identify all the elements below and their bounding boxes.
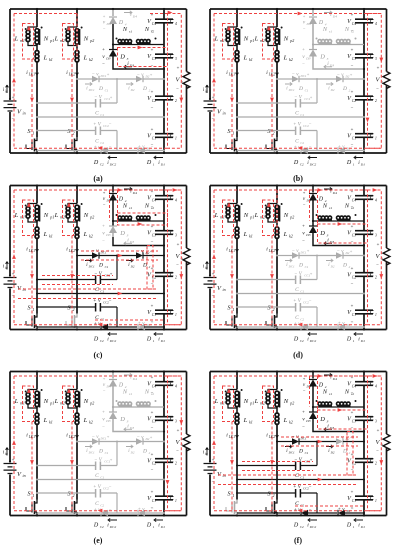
svg-text:D4: D4 [332,377,337,381]
svg-text:D: D [298,86,303,92]
svg-text:p2: p2 [89,401,94,406]
svg-text:4: 4 [175,198,177,202]
svg-text:L: L [83,417,88,424]
svg-text:D: D [98,449,103,455]
svg-text:k2: k2 [289,57,293,62]
svg-text:LK2: LK2 [68,249,75,253]
svg-text:2: 2 [73,307,75,312]
svg-text:C: C [95,111,99,117]
svg-text:−: − [302,425,305,430]
svg-text:C2: C2 [100,163,104,167]
svg-text:C: C [295,139,299,145]
svg-text:C4: C4 [152,384,156,388]
svg-text:3: 3 [175,57,177,61]
svg-text:s2: s2 [351,392,354,396]
svg-text:N: N [83,36,89,43]
svg-text:C2: C2 [300,318,304,322]
svg-text:+: + [351,305,354,310]
svg-text:C: C [95,139,99,145]
svg-text:−: − [309,507,312,512]
svg-text:C1: C1 [105,451,109,455]
svg-text:C1: C1 [352,136,356,140]
svg-text:C2: C2 [100,525,104,529]
svg-text:−: − [376,87,379,92]
svg-text:D: D [146,523,152,529]
svg-text:L: L [83,55,88,62]
svg-text:− v: − v [292,249,300,254]
svg-text:k1: k1 [49,420,53,425]
svg-text:in: in [205,266,208,270]
svg-text:(b): (b) [293,174,303,183]
svg-text:N: N [283,212,289,219]
svg-text:D2: D2 [330,88,335,92]
svg-text:D: D [93,523,99,529]
svg-text:C3: C3 [152,57,156,61]
svg-text:+: + [377,67,380,72]
svg-text:+: + [102,225,105,230]
svg-text:p2: p2 [289,401,294,406]
svg-text:D: D [146,160,152,166]
svg-text:−: − [351,106,354,111]
svg-text:+: + [177,67,180,72]
svg-text:+: + [110,95,113,100]
svg-text:N: N [122,26,128,33]
svg-text:+: + [150,435,153,440]
svg-text:LK1: LK1 [228,249,235,253]
svg-text:N: N [283,36,289,43]
svg-text:N: N [122,389,128,396]
svg-text:D3: D3 [105,233,111,237]
svg-text:D: D [119,416,125,423]
svg-text:C1: C1 [305,265,309,269]
svg-text:DC2: DC2 [109,339,117,343]
svg-text:p1: p1 [49,401,54,406]
svg-text:p2: p2 [289,38,294,43]
svg-text:C2: C2 [100,504,104,508]
svg-text:+ v: + v [138,508,146,513]
svg-text:k1: k1 [49,234,53,239]
svg-text:D: D [298,449,303,455]
svg-text:LK2: LK2 [68,73,75,77]
svg-text:D: D [342,449,347,455]
svg-text:C1: C1 [352,313,356,317]
svg-text:− v: − v [292,73,300,78]
svg-text:1: 1 [175,136,177,140]
svg-text:N: N [144,26,150,33]
svg-text:in: in [223,111,226,116]
svg-text:D2: D2 [130,451,135,455]
svg-text:D: D [93,160,99,166]
svg-text:D: D [293,160,299,166]
svg-text:(c): (c) [94,351,103,360]
svg-text:+: + [151,49,154,54]
svg-text:in: in [205,452,208,456]
svg-text:D: D [146,337,152,343]
svg-text:+: + [110,457,113,462]
svg-text:−: − [151,469,154,474]
svg-text:C2: C2 [152,99,156,103]
svg-text:2: 2 [375,275,377,279]
svg-text:D: D [319,54,325,61]
svg-text:C2: C2 [152,275,156,279]
svg-text:k1: k1 [49,57,53,62]
svg-text:s1: s1 [129,392,132,396]
svg-text:+: + [351,491,354,496]
svg-text:D3: D3 [305,57,311,61]
svg-text:C3: C3 [352,57,356,61]
svg-text:D4: D4 [306,385,311,389]
svg-text:2: 2 [273,131,275,136]
svg-text:+: + [377,243,380,248]
svg-text:k1: k1 [249,57,253,62]
svg-text:+ v: + v [138,145,146,150]
svg-text:4: 4 [375,198,377,202]
svg-text:L: L [254,36,259,43]
svg-text:C3: C3 [352,233,356,237]
svg-text:LK2: LK2 [268,249,275,253]
svg-text:1: 1 [375,136,377,140]
svg-text:DC2: DC2 [309,163,317,167]
svg-text:−: − [109,484,112,489]
svg-text:+ v: + v [338,322,346,327]
svg-text:L: L [254,398,259,405]
svg-text:C1: C1 [105,265,109,269]
svg-text:(d): (d) [293,351,303,360]
svg-text:+: + [151,91,154,96]
svg-text:C1: C1 [152,136,156,140]
svg-text:2: 2 [175,461,177,465]
svg-text:2: 2 [375,99,377,103]
svg-text:+: + [351,14,354,19]
svg-text:p1: p1 [49,215,54,220]
svg-text:−: − [376,450,379,455]
svg-text:C1: C1 [305,88,309,92]
svg-text:DC2: DC2 [109,525,117,529]
svg-text:2: 2 [175,275,177,279]
svg-text:−: − [309,145,312,150]
svg-text:N: N [344,26,350,33]
svg-text:+: + [351,376,354,381]
svg-text:+: + [307,72,310,77]
svg-text:D4: D4 [106,22,111,26]
svg-text:D: D [319,230,325,237]
svg-text:C3: C3 [352,419,356,423]
svg-text:+: + [151,376,154,381]
svg-text:C: C [95,501,99,507]
svg-text:N: N [43,36,49,43]
svg-text:+: + [302,411,305,416]
svg-text:+: + [102,48,105,53]
svg-text:LK2: LK2 [268,435,275,439]
svg-text:1: 1 [233,131,235,136]
svg-text:p1: p1 [249,215,254,220]
svg-text:C1: C1 [100,476,104,480]
svg-text:−: − [351,283,354,288]
svg-text:in: in [205,90,208,94]
svg-text:N: N [243,398,249,405]
svg-text:C2: C2 [352,461,356,465]
svg-text:DC2: DC2 [309,339,317,343]
svg-text:1: 1 [33,493,35,498]
svg-text:s2: s2 [351,30,354,34]
svg-text:p2: p2 [289,215,294,220]
svg-text:2: 2 [175,99,177,103]
svg-text:+: + [151,225,154,230]
svg-text:DC2: DC2 [309,525,317,529]
svg-text:+: + [103,190,106,195]
svg-text:s2: s2 [151,30,154,34]
svg-text:− V: − V [294,272,303,277]
svg-text:D: D [298,263,303,269]
svg-text:N: N [144,203,150,210]
svg-text:−: − [302,239,305,244]
svg-text:D4: D4 [306,22,311,26]
svg-text:−: − [309,122,312,127]
svg-text:N: N [344,389,350,396]
svg-text:N: N [83,398,89,405]
svg-text:− V: − V [94,272,103,277]
svg-text:L: L [43,55,48,62]
svg-text:D: D [293,523,299,529]
svg-text:+: + [151,128,154,133]
svg-text:D: D [319,416,325,423]
svg-text:DC1: DC1 [88,265,95,269]
svg-text:1: 1 [233,493,235,498]
svg-text:3: 3 [175,233,177,237]
svg-text:L: L [283,417,288,424]
svg-text:2: 2 [273,493,275,498]
svg-text:3: 3 [375,233,377,237]
svg-text:C2: C2 [152,461,156,465]
svg-text:1: 1 [153,163,155,167]
svg-text:in: in [223,287,226,292]
svg-text:in: in [5,90,8,94]
svg-text:C4: C4 [352,198,356,202]
svg-text:D: D [98,86,103,92]
svg-text:N: N [344,203,350,210]
svg-text:−: − [102,239,105,244]
svg-text:1: 1 [33,307,35,312]
svg-text:D1: D1 [160,339,165,343]
svg-text:s2: s2 [351,206,354,210]
svg-text:+: + [307,248,310,253]
svg-text:C1: C1 [305,451,309,455]
svg-text:+: + [151,453,154,458]
svg-text:+: + [303,190,306,195]
svg-text:D4: D4 [106,199,111,203]
svg-text:C4: C4 [152,198,156,202]
svg-text:+: + [177,429,180,434]
svg-text:− V: − V [294,96,303,101]
svg-text:3: 3 [175,419,177,423]
svg-text:− V: − V [94,458,103,463]
svg-text:−: − [109,507,112,512]
svg-text:D2: D2 [330,265,335,269]
svg-text:L: L [243,55,248,62]
svg-text:− V: − V [294,458,303,463]
svg-text:D1: D1 [360,525,365,529]
svg-text:− v: − v [92,73,100,78]
svg-text:−: − [176,450,179,455]
svg-text:k2: k2 [89,57,93,62]
svg-text:−: − [109,122,112,127]
svg-text:+: + [310,95,313,100]
svg-text:LK1: LK1 [28,249,35,253]
svg-text:DC2: DC2 [109,163,117,167]
svg-text:p1: p1 [249,401,254,406]
svg-text:DC1: DC1 [288,88,295,92]
svg-text:L: L [283,55,288,62]
svg-text:+: + [351,128,354,133]
svg-text:C2: C2 [100,141,104,145]
svg-text:−: − [302,63,305,68]
svg-text:LK1: LK1 [228,73,235,77]
svg-text:+: + [302,225,305,230]
svg-text:+: + [310,271,313,276]
svg-text:+: + [151,190,154,195]
svg-text:C: C [95,473,99,479]
svg-text:D: D [119,54,125,61]
svg-text:LK1: LK1 [28,73,35,77]
svg-text:in: in [23,111,26,116]
svg-text:D: D [142,449,147,455]
svg-text:3: 3 [375,57,377,61]
svg-text:D4: D4 [132,191,137,195]
svg-text:−: − [109,145,112,150]
svg-text:LK1: LK1 [228,435,235,439]
svg-text:1: 1 [353,339,355,343]
svg-text:C4: C4 [352,22,356,26]
svg-text:C: C [95,287,99,293]
svg-text:D1: D1 [160,525,165,529]
svg-text:N: N [243,212,249,219]
svg-text:−: − [303,389,306,394]
svg-text:L: L [83,231,88,238]
svg-text:−: − [103,203,106,208]
svg-text:C1: C1 [100,290,104,294]
svg-text:2: 2 [73,493,75,498]
svg-text:+ V: + V [93,485,102,490]
svg-text:N: N [144,389,150,396]
svg-text:(a): (a) [93,174,103,183]
svg-text:D2: D2 [130,88,135,92]
svg-text:D: D [346,337,352,343]
svg-text:− v: − v [337,250,345,255]
svg-text:+: + [151,411,154,416]
svg-text:L: L [54,36,59,43]
svg-text:D: D [342,86,347,92]
svg-text:+: + [102,411,105,416]
svg-text:1: 1 [233,307,235,312]
svg-text:LK2: LK2 [68,435,75,439]
svg-text:D: D [342,263,347,269]
svg-text:p2: p2 [89,215,94,220]
svg-text:L: L [254,212,259,219]
svg-text:L: L [43,231,48,238]
svg-text:− v: − v [137,73,145,78]
svg-text:+: + [151,14,154,19]
svg-text:+: + [351,267,354,272]
svg-text:C: C [295,287,299,293]
svg-text:N: N [283,398,289,405]
svg-text:1: 1 [353,525,355,529]
svg-text:1: 1 [175,313,177,317]
svg-text:C1: C1 [100,113,104,117]
svg-text:s2: s2 [151,392,154,396]
svg-text:− v: − v [337,436,345,441]
svg-text:k1: k1 [249,420,253,425]
svg-text:C1: C1 [152,499,156,503]
svg-text:−: − [103,389,106,394]
svg-text:−: − [102,425,105,430]
svg-text:LK1: LK1 [28,435,35,439]
svg-text:+: + [350,249,353,254]
svg-text:C3: C3 [152,419,156,423]
svg-text:C: C [295,111,299,117]
svg-text:+: + [103,14,106,19]
svg-text:D3: D3 [105,419,111,423]
svg-text:C2: C2 [352,275,356,279]
svg-text:D: D [142,86,147,92]
svg-text:D4: D4 [332,191,337,195]
svg-text:+: + [351,225,354,230]
svg-text:C1: C1 [152,313,156,317]
svg-text:D3: D3 [105,57,111,61]
svg-text:DC1: DC1 [288,451,295,455]
svg-text:+: + [351,49,354,54]
svg-text:+: + [177,243,180,248]
svg-text:D: D [346,523,352,529]
svg-text:D: D [142,263,147,269]
svg-text:+: + [150,72,153,77]
svg-text:− v: − v [337,73,345,78]
svg-text:L: L [243,231,248,238]
svg-text:D1: D1 [360,163,365,167]
svg-text:L: L [243,417,248,424]
svg-text:+ v: + v [138,322,146,327]
svg-text:p2: p2 [89,38,94,43]
svg-text:D4: D4 [132,15,137,19]
svg-text:N: N [43,212,49,219]
svg-text:+: + [351,190,354,195]
svg-text:C: C [295,315,299,321]
svg-text:D: D [93,337,99,343]
svg-text:2: 2 [273,307,275,312]
svg-text:4: 4 [375,22,377,26]
svg-text:D2: D2 [330,451,335,455]
svg-text:1: 1 [375,313,377,317]
svg-text:in: in [23,473,26,478]
svg-text:D: D [293,337,299,343]
svg-text:L: L [54,212,59,219]
svg-text:C4: C4 [152,22,156,26]
svg-text:+ v: + v [338,508,346,513]
svg-text:D: D [346,160,352,166]
svg-text:N: N [122,203,128,210]
svg-text:−: − [176,87,179,92]
svg-text:DC1: DC1 [88,451,95,455]
svg-text:−: − [103,26,106,31]
svg-text:N: N [243,36,249,43]
svg-text:D4: D4 [106,385,111,389]
svg-text:C1: C1 [300,290,304,294]
svg-text:L: L [43,417,48,424]
svg-text:−: − [151,106,154,111]
svg-text:C2: C2 [100,339,104,343]
svg-text:2: 2 [375,461,377,465]
svg-text:4: 4 [175,22,177,26]
svg-text:−: − [303,203,306,208]
